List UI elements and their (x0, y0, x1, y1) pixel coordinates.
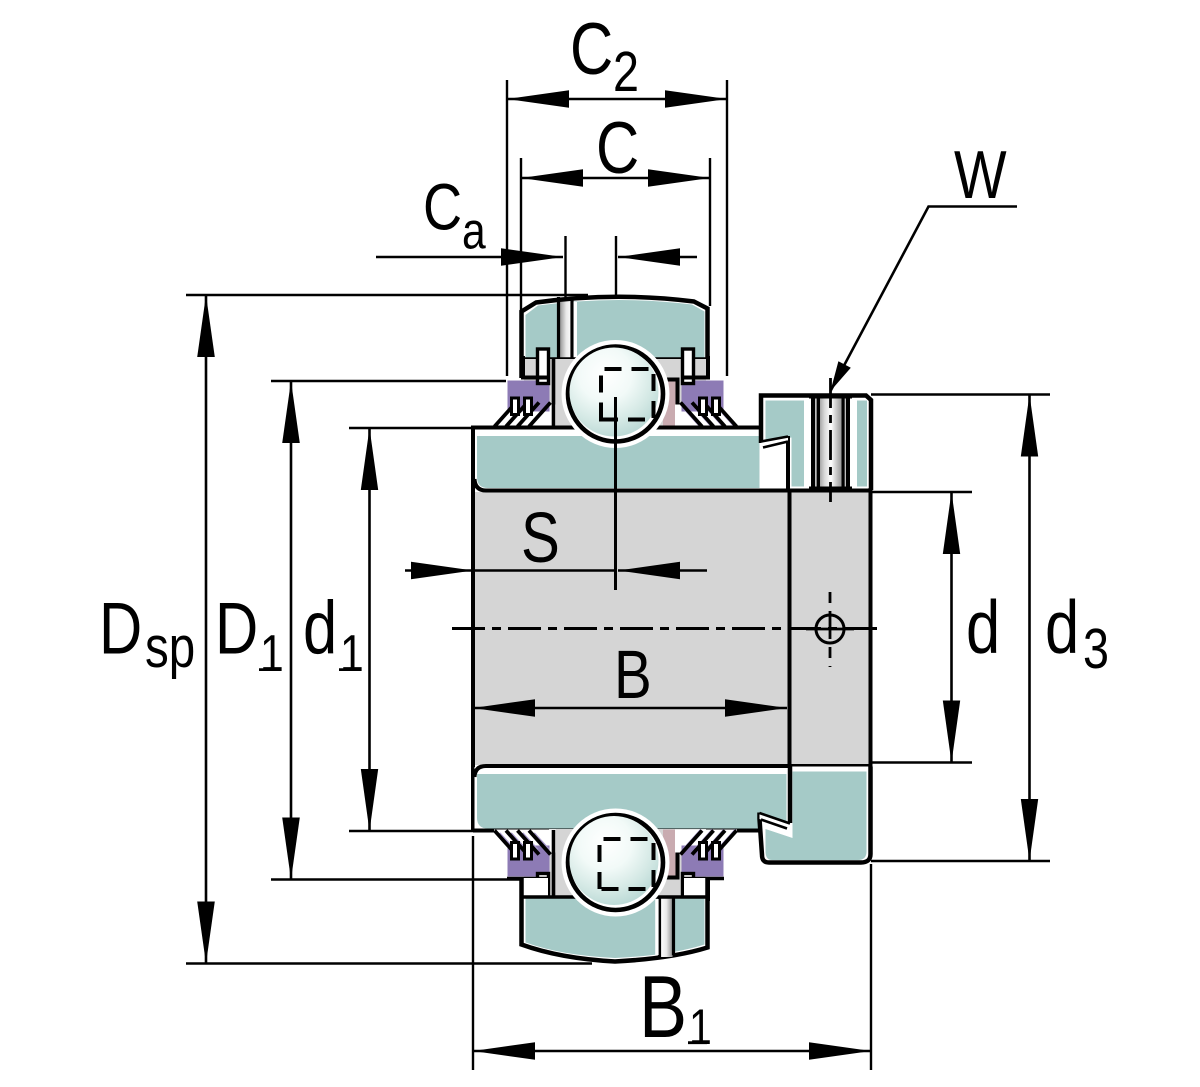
seal top-left: P-seal rubber body (508, 381, 550, 406)
cage gray right of bottom ball (640, 829, 706, 897)
outer ring seal groove L, bottom-right (684, 880, 708, 902)
svg-text:C: C (570, 9, 613, 90)
svg-text:C: C (423, 169, 462, 243)
dimension Ca tick lines (564, 236, 566, 297)
cage gray right of top ball (640, 359, 706, 428)
svg-text:B: B (639, 958, 687, 1056)
dimension Dsp extension lines (186, 294, 588, 296)
dimension d1 (361, 428, 378, 831)
dimension Dsp (197, 295, 215, 964)
svg-text:S: S (521, 497, 560, 577)
dimension B (473, 699, 787, 717)
inner ring bottom cross-section band (teal) (473, 766, 871, 831)
collar bottom edge line (789, 489, 871, 493)
cage edge line, bottom-right (652, 830, 678, 878)
grub screw (set screw) in collar (804, 396, 857, 489)
seal top-left flinger (sheet metal) (538, 349, 549, 384)
cage edge line, top-right (652, 380, 678, 428)
svg-text:d: d (1045, 585, 1079, 669)
seal bottom-left lip zone (494, 830, 556, 855)
leader W to grub screw (831, 207, 1018, 392)
locking collar top cross-section (761, 396, 871, 491)
seal top-right: rubber body (682, 381, 724, 406)
bearing axis centerline (452, 627, 881, 630)
cage/carrier gray left of top ball (524, 359, 538, 381)
seal top-right lip zone (675, 403, 737, 428)
dimension d (943, 492, 960, 763)
svg-text:1: 1 (340, 625, 364, 683)
inner ring bore surface (gray) (475, 492, 869, 765)
dimension d3 (1021, 395, 1038, 862)
dimension C2 extension lines (506, 80, 508, 376)
dimension d1 extension lines (349, 427, 473, 429)
svg-text:B: B (614, 637, 652, 714)
svg-text:W: W (954, 138, 1007, 213)
cage pink strip right of top ball (663, 380, 676, 428)
dimension C (521, 169, 710, 187)
inner ring top cross-section band (teal) (473, 428, 871, 491)
outer ring top outline (522, 297, 708, 378)
svg-text:a: a (462, 203, 486, 261)
inner ring right face edge seen in bore (788, 492, 792, 766)
cage gray left of bottom ball (524, 875, 538, 897)
dimension B1 (473, 1042, 871, 1060)
dimension C extension lines (520, 158, 522, 313)
outer ring bore line bottom (523, 895, 707, 899)
svg-text:1: 1 (260, 625, 284, 683)
lubrication hole bottom (gray slot) (655, 897, 673, 958)
inner ring left face (471, 426, 475, 831)
screw position vertical centerline (829, 592, 832, 667)
seal top-left lip zone (494, 403, 556, 428)
seal bottom-right teeth (700, 843, 707, 860)
seal bottom-left teeth (512, 843, 519, 860)
svg-text:d: d (966, 585, 1000, 669)
dimension C2 (507, 90, 727, 108)
svg-text:C: C (596, 108, 639, 189)
load zone dashed square bottom ball (600, 839, 654, 889)
outer ring seal groove L, top-right (684, 356, 708, 378)
collar top eccentric recess edge (beak) (761, 437, 788, 448)
seal top-left teeth (512, 398, 519, 415)
dimension D1 (282, 381, 300, 880)
dimension Ca (376, 248, 697, 266)
cage edge line, top-left (552, 359, 556, 427)
seal top-right flinger (683, 349, 694, 384)
cage pink strip right of bottom ball (663, 830, 676, 878)
seal bottom-right lip zone (675, 830, 737, 855)
cage edge line, bottom-left (552, 830, 556, 898)
svg-text:d: d (303, 586, 337, 670)
svg-text:1: 1 (689, 999, 712, 1055)
ball top (with clearance gap) (562, 340, 670, 448)
dimension d extension lines (871, 491, 972, 493)
svg-text:2: 2 (613, 41, 639, 104)
seal bottom-left flinger (538, 874, 549, 909)
svg-text:D: D (99, 589, 142, 670)
load zone dashed square top ball (601, 369, 654, 420)
raceway center reference line (S datum) (614, 397, 617, 590)
seal top-right teeth (700, 398, 707, 415)
screw position marker circle (806, 628, 854, 631)
outer ring seal groove L, bottom-left (523, 880, 549, 902)
outer ring bore line top (523, 357, 707, 361)
dimension B1 extension lines (472, 836, 474, 1070)
seal bottom-left: rubber body (508, 852, 550, 877)
seal bottom-right flinger (683, 874, 694, 909)
collar right face line through bore zone (869, 488, 873, 768)
lubrication hole top (gray slot) (559, 297, 578, 359)
outer ring top cross-section (spherical OD, teal) (522, 297, 708, 378)
ball bottom (with clearance gap) (562, 809, 670, 917)
outer ring seal groove L, top-left (523, 356, 549, 378)
svg-text:sp: sp (145, 616, 195, 681)
dimension D1 extension lines (271, 380, 506, 382)
seal bottom-right: rubber body (682, 852, 724, 877)
collar bottom eccentric recess edge (beak) (760, 813, 791, 829)
svg-text:D: D (215, 589, 258, 670)
dimension S (405, 562, 707, 579)
dimension d3 extension lines (871, 393, 1050, 395)
grub screw centerline (829, 378, 832, 502)
locking collar bottom cross-section (760, 767, 871, 863)
svg-text:3: 3 (1083, 618, 1109, 681)
outer ring bottom cross-section (teal) (522, 878, 708, 962)
